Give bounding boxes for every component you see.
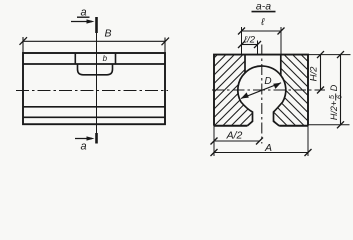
svg-text:A/2: A/2 xyxy=(226,130,243,142)
svg-text:a-a: a-a xyxy=(256,1,271,13)
svg-text:5: 5 xyxy=(329,95,336,99)
svg-text:a: a xyxy=(80,7,86,19)
svg-text:6: 6 xyxy=(337,95,344,99)
svg-text:ℓ: ℓ xyxy=(260,17,265,28)
svg-text:D: D xyxy=(329,84,339,91)
svg-text:ℓ/2: ℓ/2 xyxy=(243,35,256,46)
svg-text:H/2: H/2 xyxy=(309,66,320,82)
svg-text:A: A xyxy=(264,142,272,154)
svg-text:H/2+: H/2+ xyxy=(329,101,339,120)
svg-text:B: B xyxy=(104,27,111,39)
svg-text:D: D xyxy=(264,76,271,87)
svg-text:a: a xyxy=(80,141,86,153)
svg-text:b: b xyxy=(103,54,108,63)
